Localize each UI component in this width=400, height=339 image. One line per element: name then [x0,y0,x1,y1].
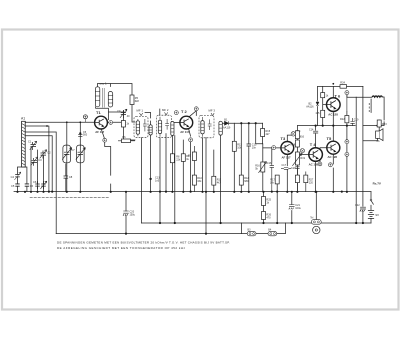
wire coil3 down [220,135,222,223]
resistor R6 horizontal [118,136,135,143]
svg-text:R23: R23 [382,123,387,126]
svg-text:R18: R18 [291,143,296,146]
svg-text:AF 117: AF 117 [180,130,189,134]
test point tp7 [345,140,349,144]
wire T2 emitter [188,128,190,192]
svg-text:1n5: 1n5 [155,180,160,183]
collector circle small [109,121,113,125]
wire bus3 [56,223,285,234]
capacitor C18 [291,167,300,170]
svg-text:9V: 9V [375,213,379,217]
resistor R26 below bus [262,212,272,220]
capacitor C5a 500 label [78,131,88,137]
wire bus1 ground [14,191,371,193]
svg-text:Rs.7V: Rs.7V [373,182,381,186]
thermistor R19 arrow [292,152,305,166]
svg-text:C22: C22 [355,204,360,207]
wire T5 T6 stack [332,86,334,140]
test point tp4 [189,138,193,142]
loudspeaker [376,129,383,143]
coupling coil L4 [219,121,222,135]
resistor R11 [212,176,222,185]
svg-text:MF 3: MF 3 [209,109,216,113]
svg-text:C14: C14 [309,129,314,132]
transistor T3 [281,136,294,159]
wire coil1b top [145,113,151,125]
svg-text:500: 500 [83,134,88,137]
wire T4 base [300,150,308,154]
test point tp8 [345,152,349,156]
svg-text:T 4: T 4 [310,142,317,147]
transistor T4 [309,142,323,167]
test point circle tp1 [83,115,87,123]
svg-text:R24: R24 [340,82,345,85]
svg-text:C2: C2 [47,150,51,154]
svg-text:C18: C18 [291,167,296,170]
wire osc top [98,84,133,96]
resistor R13 [232,141,242,151]
resistor R12 [239,175,249,185]
coupling coil L2 [149,125,152,135]
wire x322 r [323,86,327,125]
svg-text:AA119: AA119 [223,127,231,130]
svg-text:osc 1: osc 1 [100,82,108,86]
svg-text:AC 128: AC 128 [328,113,338,117]
test point tp10 [318,162,322,166]
wire coil1b down [150,135,152,192]
svg-text:MF 1: MF 1 [137,109,144,113]
test point tp2 [174,111,178,115]
svg-text:DE SPANNINGEN GEMETEN MET EEN: DE SPANNINGEN GEMETEN MET EEN BUISVOLTME… [57,240,230,244]
wire below bus x316 jack [315,192,317,220]
trimmer capacitor C3 [31,157,42,166]
tuning gang section 1 [62,145,72,163]
wire 150uF column [125,192,127,234]
svg-text:T5: T5 [327,136,332,141]
test point tp6 [345,91,349,112]
svg-text:680: 680 [244,180,249,183]
svg-text:C19: C19 [354,119,359,122]
svg-text:C3: C3 [38,158,42,162]
svg-text:DE AFREGELING GESCHIEDT MET EE: DE AFREGELING GESCHIEDT MET EEN TOONGENE… [57,246,186,250]
svg-text:C8: C8 [69,175,73,179]
wire osc coil down [96,107,124,120]
output transformer TR2 [369,96,382,112]
svg-text:AC 128: AC 128 [309,163,319,167]
wire gang dash link [30,196,110,198]
resistor R24 horizontal [340,82,347,89]
wire diode out [229,122,262,124]
wire T1 emitter [101,129,110,191]
wire bus2 [142,222,372,224]
test point tp9 [328,163,332,167]
wire mf3 to bus [202,138,204,192]
svg-text:C17: C17 [282,164,287,167]
wire vert x31 [30,147,32,192]
resistor R20 1k5 [315,110,324,117]
resistor R9 [181,154,190,162]
electrolytic C22 [355,204,366,211]
wire R05 down [132,105,135,123]
wire speaker link [363,120,384,141]
wire x234 r13 [233,123,235,192]
coupling coil L3 [171,122,174,136]
svg-text:C1: C1 [28,140,32,144]
oscillator transformer osc [95,82,112,108]
diode B2 [306,102,319,109]
junction dot c13 [149,177,160,183]
resistor R14 [295,131,304,139]
wire vert x17 [18,167,26,192]
resistor R05 [130,95,139,105]
wire x255 volume [256,123,263,192]
wire x346 rail [346,111,348,192]
capacitor C4 left [11,172,21,180]
wire vert x37 [37,150,39,192]
svg-text:1k5: 1k5 [315,112,320,115]
svg-text:C5: C5 [11,184,15,188]
svg-text:6k8: 6k8 [135,100,140,103]
wire x297 chain [296,126,298,192]
svg-text:R19: R19 [300,157,305,160]
svg-text:100u: 100u [295,207,301,210]
wire r24 top [347,95,356,98]
electrolytic capacitor C21 100u [289,204,302,210]
capacitor C15 [247,143,257,150]
transistor T2 [180,109,193,134]
wire mf2 connections [160,109,175,223]
svg-text:4k7: 4k7 [217,181,222,184]
capacitor row C5b [25,184,34,188]
wire T3 emitter [286,154,288,192]
emitter circle small [103,138,107,142]
wire T3 collector [287,135,297,141]
wire coil3 top to diode [221,121,225,123]
IF transformer MF2 [157,108,172,138]
svg-text:470: 470 [266,217,271,220]
trimmer row C6b [40,181,46,189]
svg-text:150u: 150u [130,214,136,217]
wire x248 c15 [248,123,250,192]
diode B1 [223,118,231,129]
trimmer capacitor C9 at T1 [117,109,130,118]
capacitor C17 [281,164,291,169]
wire below bus x262 [263,192,265,223]
capacitor row C6 [33,180,40,189]
volume potentiometer R16 [255,162,266,173]
earphone jack [310,216,321,233]
capacitor C16 [267,162,274,192]
wire T3 base [263,148,281,162]
wire vert antenna bottom [25,167,27,192]
wire x241 drop [240,123,242,192]
wire trafo top [356,97,384,125]
wire B2 diode branch [318,86,363,125]
test point tp3 [194,107,198,111]
resistor R25 below bus [262,197,272,206]
svg-text:C6: C6 [30,184,34,188]
wire output transformer rails [356,86,363,223]
IF transformer MF3 [199,109,215,138]
wire x206 long [205,138,207,234]
resistor R21 top [321,93,329,98]
wire T4 down [315,162,317,192]
svg-text:120: 120 [309,181,314,184]
svg-text:LS: LS [377,140,380,143]
wire T1 collector right [108,111,135,141]
wire T2 collector top [189,111,197,117]
resistor R18 [291,140,300,147]
svg-text:T3: T3 [281,136,286,141]
lamp circle-x [291,130,301,136]
transistor T6 [327,94,342,117]
resistor R23 [377,120,387,127]
svg-text:C4: C4 [11,175,15,179]
wire top antenna to T1 base [25,121,95,123]
wire battery column [370,192,372,223]
svg-text:10n: 10n [252,147,257,150]
svg-text:816: 816 [300,136,305,139]
wire T5 base [320,148,327,162]
wire T5 bottom [332,154,334,192]
lamp circle-x2 [300,149,304,153]
resistor R10 [188,146,202,192]
transistor T5 [327,136,340,159]
resistor R8 [170,154,181,163]
svg-text:AA116: AA116 [306,106,314,109]
wire vert x55 long [25,126,56,234]
capacitor C8 mid-left [64,164,73,192]
wire mf1 bottom to bus2 [141,138,143,223]
wire x173 resistor drop [171,136,173,192]
transistor T1 [95,110,113,142]
capacitor row C5 [11,184,20,188]
wire mid horizontal [297,125,355,127]
electrolytic capacitor C20 150u [123,211,136,217]
wire T2 base link [174,122,180,124]
trimmer capacitor C2 [40,150,51,159]
IF transformer MF1 [134,109,148,138]
wire x213 resistor [213,150,215,192]
wire vert x43 [43,156,45,192]
svg-text:T1: T1 [96,110,101,115]
resistor R27 [304,172,314,192]
svg-text:MF 2: MF 2 [162,108,169,112]
battery 9V [368,210,379,218]
svg-text:Tel: Tel [310,216,314,219]
svg-text:A1: A1 [21,117,25,121]
svg-text:C6: C6 [33,180,37,184]
trimmer capacitor C1 [28,140,37,151]
ferrite antenna A1 [21,117,25,167]
wire x183 resistor drop [182,140,184,192]
wire below bus x291 cap [291,192,293,223]
wire vert gang1 [66,122,68,192]
pickup connector B3 [247,228,256,235]
svg-text:AF 117: AF 117 [95,130,104,134]
tuning gang section 2 [72,145,86,163]
wire vert gang2 [79,122,81,192]
svg-text:C16: C16 [267,162,272,165]
capacitor C14 [309,129,318,133]
pickup connector B4 [268,228,277,235]
resistor R20b [295,169,299,192]
svg-text:R22: R22 [340,118,345,121]
svg-text:AF 117: AF 117 [282,155,291,159]
wire x262 r15 [262,123,264,144]
resistor R22 [340,116,349,123]
svg-text:T 2: T 2 [181,109,188,114]
resistor R4 [121,121,129,128]
svg-text:AC 128: AC 128 [328,155,338,159]
resistor R17 [270,175,279,184]
svg-text:4k7: 4k7 [266,133,271,136]
test point tp5 [272,146,276,150]
wire x277 drop [276,177,278,223]
resistor R15 [261,129,271,137]
capacitor C19 [350,118,359,126]
switch S1 [370,199,374,205]
wire T4 top [315,126,317,148]
